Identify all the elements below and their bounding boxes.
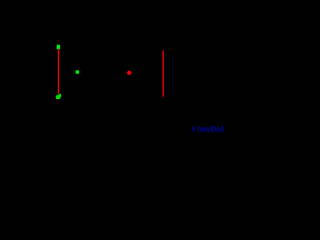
- wire (left vertical red wire): [58, 49, 59, 94]
- node B (green handle blob, bottom of left wire): [56, 93, 61, 99]
- node A (green pin square, top of left wire): [57, 45, 60, 50]
- junction (red dot): [127, 71, 131, 75]
- svg-text:X (ms/Div): X (ms/Div): [190, 126, 224, 133]
- node C (isolated green pin square): [76, 70, 79, 74]
- wire (right vertical red wire): [163, 49, 164, 97]
